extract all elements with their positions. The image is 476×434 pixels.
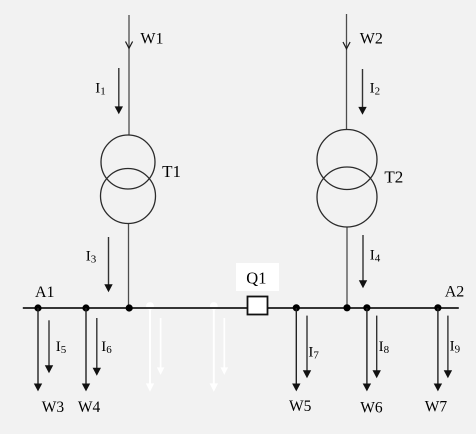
svg-text:T2: T2 bbox=[384, 167, 403, 186]
svg-text:Q1: Q1 bbox=[246, 268, 266, 287]
svg-text:A2: A2 bbox=[445, 284, 465, 301]
svg-text:W1: W1 bbox=[140, 30, 163, 47]
svg-text:W4: W4 bbox=[78, 399, 101, 416]
svg-text:W2: W2 bbox=[360, 30, 383, 47]
svg-text:W3: W3 bbox=[42, 399, 65, 416]
svg-text:W6: W6 bbox=[360, 400, 383, 417]
svg-text:W7: W7 bbox=[425, 399, 448, 416]
svg-text:T1: T1 bbox=[162, 162, 181, 181]
svg-text:W5: W5 bbox=[289, 398, 312, 415]
svg-text:A1: A1 bbox=[35, 284, 55, 301]
